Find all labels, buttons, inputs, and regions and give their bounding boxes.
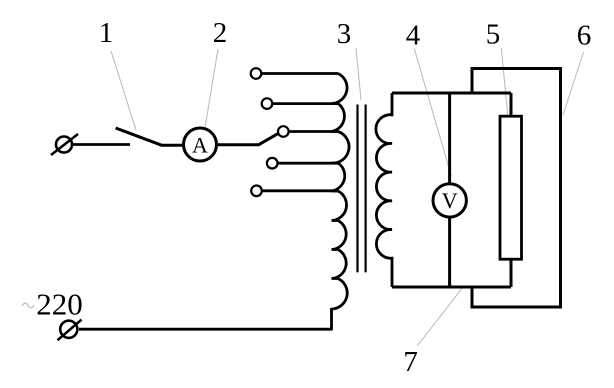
secondary winding L2: [376, 93, 392, 287]
tap terminal 2: [262, 98, 273, 109]
svg-text:220: 220: [36, 287, 83, 322]
tap wire 1: [261, 72, 338, 75]
wire ammeter to wiper: [217, 133, 279, 145]
leader line to wire 7: [418, 288, 462, 345]
voltmeter branch bottom wire: [448, 217, 451, 287]
svg-text:2: 2: [213, 17, 228, 49]
tap terminal 1: [251, 68, 262, 79]
leader line to box 6: [563, 52, 584, 115]
wire to resistor top: [510, 93, 513, 117]
svg-text:3: 3: [337, 18, 352, 50]
primary winding L1: [332, 74, 350, 310]
tap terminal 5: [251, 186, 262, 197]
load box 6: [472, 69, 561, 308]
leader line to core 3: [356, 48, 361, 100]
svg-text:V: V: [442, 188, 458, 213]
switch S1 blade: [116, 128, 184, 145]
leader line to ammeter 2: [205, 49, 218, 128]
wire from resistor bottom: [510, 259, 513, 287]
wire primary bottom to 220 line: [79, 308, 332, 329]
input terminal top: [51, 134, 78, 155]
svg-text:1: 1: [99, 17, 114, 49]
tap wire 4: [278, 162, 339, 165]
tap terminal 4: [267, 158, 278, 169]
leader line to voltmeter 4: [414, 49, 451, 176]
leader line to resistor 5: [501, 48, 512, 163]
svg-text:7: 7: [403, 346, 418, 378]
tap wire 5: [262, 189, 338, 192]
wire from top terminal: [72, 143, 130, 146]
tap terminal 3 (wiper contact): [278, 126, 289, 137]
input terminal bottom: [58, 320, 82, 341]
leader line to switch 1: [111, 51, 136, 130]
ammeter A: [184, 128, 217, 161]
inner circuit top wire: [392, 92, 511, 95]
svg-text:4: 4: [406, 20, 421, 52]
transformer core: [358, 105, 366, 273]
svg-text:A: A: [192, 132, 208, 157]
inner circuit bottom wire (7): [392, 286, 511, 289]
AC tilde symbol: [22, 303, 34, 308]
voltmeter branch top wire: [448, 93, 451, 184]
resistor R 5: [500, 116, 522, 259]
tap wire 2: [272, 102, 338, 105]
tap wire 3: [289, 130, 338, 133]
svg-text:6: 6: [577, 20, 592, 52]
svg-text:5: 5: [486, 19, 501, 51]
voltmeter V 4: [433, 184, 466, 217]
